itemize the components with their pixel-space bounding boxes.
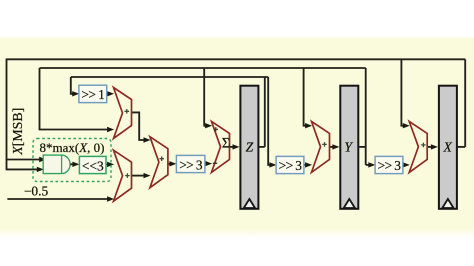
- register Z: [240, 86, 258, 209]
- wire: net Z drop to shifter >>1 input: [71, 77, 76, 94]
- shifter C (>>3): [375, 156, 403, 173]
- adder AX: [409, 121, 427, 172]
- svg-text:>> 3: >> 3: [279, 158, 303, 173]
- arrowhead shifter <<3 input: [72, 162, 79, 167]
- AND gate: [43, 155, 70, 174]
- wire: net Y drop to adder AZ top input: [204, 68, 209, 126]
- arrowhead A1 top input: [107, 91, 114, 96]
- wire: left drop of net X to AND gate: [6, 59, 8, 170]
- svg-text:<<3: <<3: [82, 158, 104, 173]
- clock triangle Y: [344, 199, 355, 208]
- arrowhead shifter B input: [269, 162, 276, 167]
- arrowhead AX bottom input: [403, 162, 410, 167]
- wire: net Z drop to shifter B input: [268, 77, 273, 165]
- shifter <<3: [79, 156, 106, 173]
- wire: X[MSB] branch into AND gate input 1: [6, 159, 41, 161]
- arrowhead register Y input: [332, 144, 339, 149]
- wire: adder AX output into register X: [427, 146, 434, 148]
- wire: third feedback bus (net Z): [71, 76, 268, 78]
- wire: shifter >>1 output to adder A1 top input: [107, 93, 111, 95]
- arrowhead A2 top input: [107, 162, 114, 167]
- wire: net X drop to adder AX top input: [401, 59, 406, 125]
- plus mark Amid output: [159, 156, 164, 161]
- wire: top feedback bus (net X): [7, 58, 466, 60]
- svg-text:−0.5: −0.5: [24, 184, 49, 199]
- arrowhead shifter >>1 input: [72, 91, 79, 96]
- minus mark AZ bottom input: [213, 162, 217, 164]
- arrowhead Amid bottom input: [144, 173, 151, 178]
- svg-text:X[MSB]: X[MSB]: [11, 108, 26, 156]
- arrowhead register Z input: [233, 144, 240, 149]
- arrowhead A1 bottom input: [107, 127, 114, 132]
- arrowhead A2 bottom input: [107, 196, 114, 201]
- wire: branch into AND gate input 2: [6, 168, 41, 170]
- svg-text:8*max(X, 0): 8*max(X, 0): [39, 140, 104, 155]
- arrowhead shifter C input: [368, 162, 375, 167]
- wire: shifter B output to adder AY bottom input: [304, 164, 309, 166]
- wire: Z output stub: [259, 146, 265, 148]
- svg-text:>> 3: >> 3: [179, 157, 203, 172]
- wire: shifter C output to adder AX bottom input: [403, 164, 407, 166]
- plus mark AX output: [421, 143, 426, 148]
- adder A2: [114, 150, 132, 201]
- plus mark AZ top input: [214, 127, 218, 131]
- arrowhead shifter A input: [169, 161, 176, 166]
- wire: Y output stub: [359, 146, 366, 148]
- wire: second feedback bus (net Y): [40, 67, 366, 69]
- svg-text:Z: Z: [246, 140, 254, 155]
- svg-text:>> 1: >> 1: [81, 87, 104, 102]
- adder AZ (sum with +/- inputs): [212, 121, 231, 172]
- shifter >>1: [79, 85, 107, 102]
- wire: adder A2 output to adder Amid bottom input: [132, 175, 148, 177]
- register X: [439, 86, 457, 209]
- svg-text:Σ: Σ: [222, 136, 230, 152]
- function block 8*max(X,0): dashed boundary: [33, 139, 111, 182]
- arrowhead AZ top input: [205, 123, 212, 128]
- wire: Z riser to third bus: [264, 77, 266, 147]
- wire: adder Amid output to shifter A input: [168, 163, 173, 165]
- wire: X output stub: [458, 146, 465, 148]
- plus mark A1 output: [125, 109, 130, 114]
- arrowhead AZ bottom input: [205, 161, 212, 166]
- arrowhead register X input: [431, 144, 438, 149]
- adder AY: [312, 121, 330, 172]
- adder Amid: [150, 137, 168, 188]
- shifter B (>>3): [276, 156, 304, 173]
- wire: Y riser and drop to shifter C input: [365, 68, 367, 165]
- wire: shifter <<3 output to adder A2 top input: [106, 163, 111, 165]
- arrowhead Amid top input: [144, 137, 151, 142]
- wire: constant -0.5 into adder A2 bottom input: [7, 198, 110, 200]
- wire: net Y drop to adder A1 bottom input: [40, 68, 111, 130]
- wire: shifter A output to adder AZ bottom input: [205, 163, 209, 165]
- wire: adder AZ output into register Z: [230, 146, 236, 148]
- wire: adder AY output into register Y: [330, 146, 336, 148]
- plus mark AY output: [322, 142, 327, 147]
- wire: X feedback riser (right side): [464, 59, 466, 147]
- clock triangle X: [442, 199, 453, 208]
- wire: net Y feed into shifter C: [366, 164, 373, 166]
- plus mark A2 output: [125, 173, 130, 178]
- register Y: [340, 86, 358, 209]
- wire: adder A1 output to adder Amid top input: [132, 112, 148, 140]
- shifter A (>>3): [176, 155, 205, 172]
- arrowhead AND input 2: [37, 167, 44, 172]
- arrowhead AX top input: [403, 123, 410, 128]
- arrowhead AY top input: [305, 123, 312, 128]
- svg-text:>> 3: >> 3: [378, 158, 402, 173]
- adder A1: [114, 88, 132, 139]
- background panel: [0, 36, 474, 238]
- arrowhead AND input 1: [39, 157, 46, 162]
- wire: net Y drop to adder AY top input: [304, 68, 309, 126]
- arrowhead AY bottom input: [305, 162, 312, 167]
- clock triangle Z: [244, 199, 255, 208]
- wire: AND gate output to shifter <<3: [70, 163, 76, 165]
- svg-text:X: X: [442, 140, 452, 155]
